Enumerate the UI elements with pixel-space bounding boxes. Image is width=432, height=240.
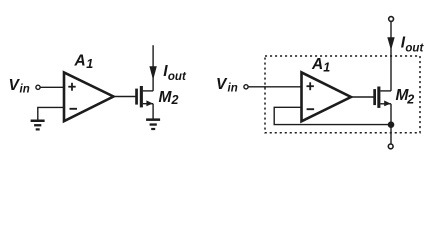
transistor M2 (left) [135,86,153,107]
wire source of M2 down to node (right) [390,104,392,125]
svg-text:2: 2 [406,93,414,107]
transistor M2 (right) [373,87,391,108]
svg-text:2: 2 [171,93,179,107]
terminal (right, bottom) [388,144,393,149]
op-amp A1 (right) [302,72,352,121]
svg-text:1: 1 [323,60,330,74]
current arrow Iout (left) [149,66,156,80]
svg-text:V: V [216,76,228,93]
wire source of M2 down (left) [152,104,154,119]
terminal Iout (right, top) [389,17,394,22]
label Vin (right) [216,76,238,95]
label Iout (left) [163,63,187,83]
svg-text:A: A [311,56,323,73]
ground (under M2, left) [146,118,160,130]
svg-text:A: A [74,53,86,70]
junction dot source node (right) [388,121,395,128]
wire feedback: − input to source node rail (right) [274,107,391,124]
wire op-amp − input to ground (left) [38,107,64,119]
terminal Vin (left) [36,85,40,89]
op-amp A1 (left) [64,73,114,122]
svg-text:in: in [228,83,238,95]
wire op-amp output to gate of M2 (right) [350,96,375,98]
svg-text:in: in [20,84,30,96]
label A1 (left) [74,53,94,71]
wire drain of M2 up to terminal (right) [390,22,392,91]
svg-text:1: 1 [86,57,93,71]
ground (under op-amp, left) [31,120,45,131]
dashed enclosure box (right) [265,56,420,133]
wire node down to bottom terminal (right) [390,125,392,144]
label A1 (right) [311,56,330,74]
wire Vin to op-amp + input (left) [40,86,64,88]
wire drain of M2 up (left) [152,45,154,91]
svg-text:out: out [405,43,424,55]
wire op-amp output to gate of M2 (left) [112,96,136,98]
label M2 (right) [396,87,415,107]
label M2 (left) [159,89,179,107]
svg-text:out: out [168,71,187,83]
svg-text:M: M [159,89,173,106]
label Vin (left) [9,77,30,96]
terminal Vin (right) [244,85,248,89]
label Iout (right) [401,34,425,54]
wire Vin to op-amp + input (right) [248,86,302,88]
current arrow Iout (right) [387,37,394,50]
